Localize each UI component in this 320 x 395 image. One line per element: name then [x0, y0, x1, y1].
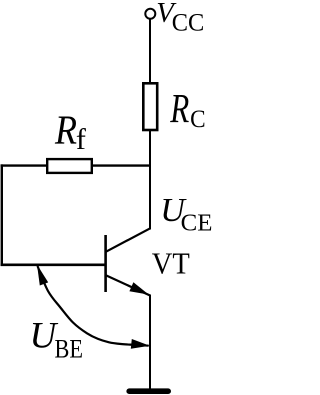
- arrowhead UBE base end: [37, 265, 48, 286]
- transistor VT base bar: [104, 235, 107, 292]
- transistor VT collector lead: [106, 228, 150, 252]
- svg-text:f: f: [76, 123, 86, 156]
- label UCE: [160, 192, 212, 237]
- wire collector node: [149, 131, 151, 230]
- label RC: [170, 85, 206, 133]
- arc UBE: [38, 266, 149, 346]
- wire Rf to collector: [93, 164, 152, 166]
- wire collector top: [149, 19, 151, 83]
- label VCC: [156, 0, 204, 37]
- ground: [129, 388, 168, 394]
- svg-text:BE: BE: [55, 335, 84, 364]
- svg-text:R: R: [54, 106, 77, 152]
- resistor RC: [143, 83, 157, 130]
- wire Rf to left: [1, 164, 47, 166]
- wire emitter to ground: [149, 295, 151, 391]
- resistor Rf: [47, 159, 92, 173]
- svg-text:CC: CC: [172, 10, 205, 37]
- transistor VT emitter arrowhead: [129, 282, 148, 294]
- arrowhead UBE emitter end: [131, 339, 150, 349]
- label Rf: [54, 106, 86, 155]
- wire left vertical: [1, 164, 3, 266]
- terminal VCC: [145, 9, 155, 19]
- svg-text:CE: CE: [181, 210, 213, 237]
- svg-text:VT: VT: [152, 246, 190, 281]
- svg-text:R: R: [170, 85, 190, 131]
- wire base: [1, 263, 106, 266]
- transistor VT emitter lead: [106, 275, 150, 295]
- svg-text:C: C: [190, 106, 206, 133]
- label UBE: [30, 315, 84, 363]
